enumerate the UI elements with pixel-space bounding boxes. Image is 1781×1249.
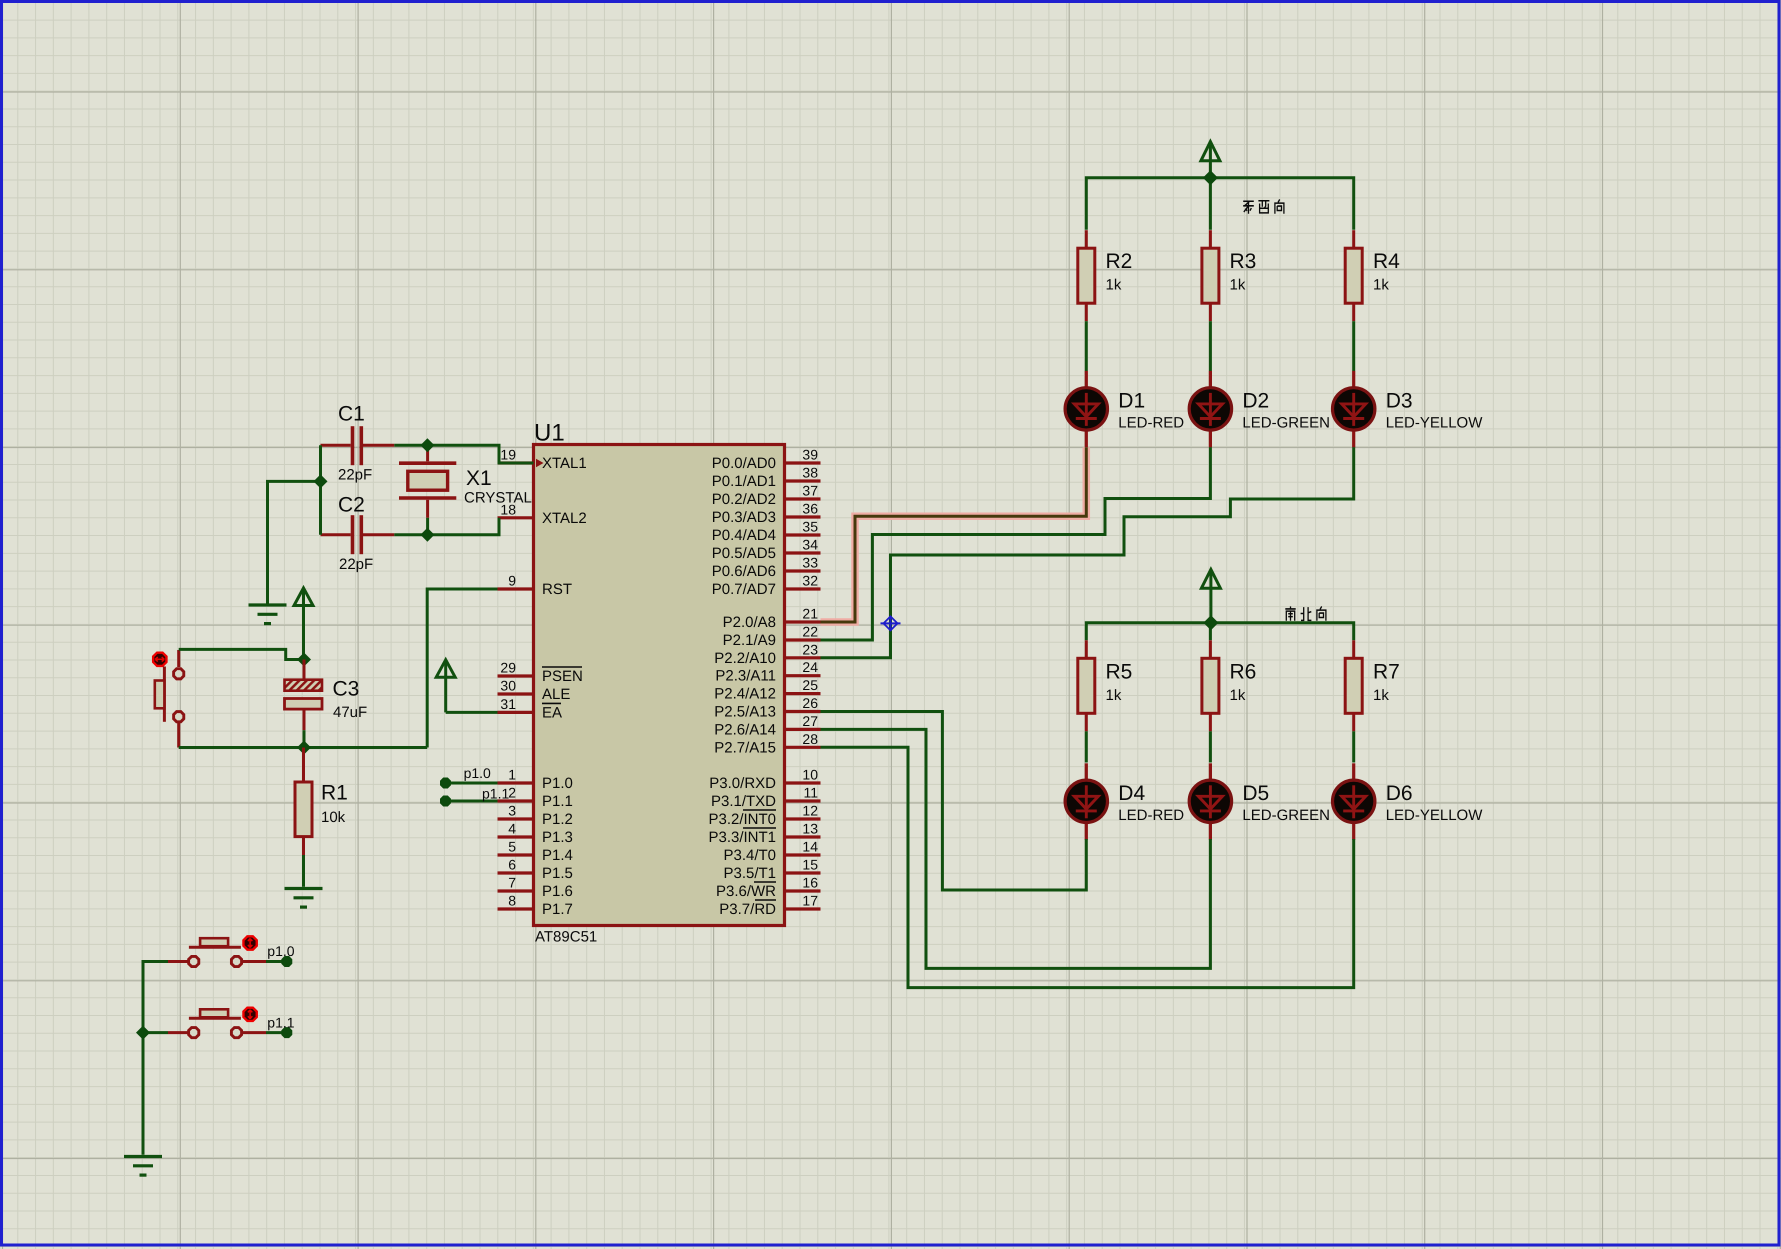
resistor R3 [1202, 230, 1219, 321]
wire P2.5 to D4 [821, 712, 1087, 891]
pin 9 RST [498, 573, 573, 599]
pin 3 P1.2 [498, 803, 573, 829]
svg-text:XTAL2: XTAL2 [542, 510, 587, 527]
svg-text:P2.4/A12: P2.4/A12 [714, 686, 776, 703]
pin 25 P2.4/A12 [714, 677, 820, 703]
node terminal p1.1 at chip [441, 796, 451, 806]
svg-text:11: 11 [803, 785, 818, 801]
resistor R4 [1345, 230, 1362, 321]
svg-text:12: 12 [802, 803, 818, 819]
pin 28 P2.7/A15 [714, 731, 820, 757]
wire R6 to D5 [1209, 731, 1212, 762]
node C1-left junction [314, 474, 328, 488]
svg-text:28: 28 [802, 731, 818, 747]
svg-text:P3.6/WR: P3.6/WR [716, 883, 776, 900]
diode D2 [1189, 371, 1231, 448]
pin 7 P1.6 [498, 875, 573, 901]
node XTAL net junction [420, 438, 434, 452]
capacitor C3 electrolytic [285, 660, 323, 731]
pin 26 P2.5/A13 [714, 695, 820, 721]
pin 1 P1.0 [498, 767, 573, 793]
svg-text:38: 38 [802, 465, 818, 481]
pin 24 P2.3/A11 [715, 659, 820, 685]
wire R7 to D6 [1352, 731, 1355, 762]
svg-text:27: 27 [802, 713, 818, 729]
pin 17 P3.7/RD [719, 893, 820, 919]
pin 34 P0.5/AD5 [712, 537, 821, 563]
pin 30 ALE [498, 678, 571, 704]
svg-text:P2.7/A15: P2.7/A15 [714, 739, 776, 756]
resistor R6 [1202, 640, 1219, 731]
push button RESET [153, 650, 184, 748]
svg-text:34: 34 [802, 537, 818, 553]
resistor R2 [1078, 230, 1095, 321]
pin 32 P0.7/AD7 [712, 573, 821, 599]
svg-text:p1.1: p1.1 [482, 786, 509, 802]
diode D6 [1333, 763, 1375, 840]
svg-text:P2.5/A13: P2.5/A13 [714, 704, 776, 721]
pin 16 P3.6/WR [716, 875, 821, 901]
wire button bottom to bottom rail [179, 746, 428, 749]
diode D3 [1333, 371, 1375, 448]
svg-text:35: 35 [802, 519, 818, 535]
pin 21 P2.0/A8 [723, 606, 821, 632]
svg-text:2: 2 [508, 785, 516, 801]
pin 2 P1.1 [498, 785, 573, 811]
power symbol lower LED bank [1201, 569, 1220, 622]
pin 14 P3.4/T0 [723, 839, 820, 865]
pin 15 P3.5/T1 [723, 857, 820, 883]
resistor R7 [1345, 640, 1362, 731]
svg-text:P1.5: P1.5 [542, 865, 573, 882]
svg-text:R1: R1 [321, 782, 348, 805]
wire button p1.0 left to ground rail [143, 962, 168, 1155]
svg-text:C1: C1 [338, 403, 365, 426]
svg-text:14: 14 [802, 839, 818, 855]
svg-text:LED-GREEN: LED-GREEN [1242, 807, 1330, 824]
wire RST net vertical [427, 589, 497, 748]
wire R4 to D3 [1352, 321, 1355, 371]
pin 29 PSEN [498, 660, 583, 686]
capacitor C2 [321, 515, 395, 554]
pin 13 P3.3/INT1 [708, 821, 820, 847]
node lower bus junction [1203, 615, 1218, 630]
svg-text:R5: R5 [1106, 660, 1133, 683]
diode D4 [1065, 763, 1107, 840]
svg-text:P0.1/AD1: P0.1/AD1 [712, 473, 776, 490]
svg-text:P2.2/A10: P2.2/A10 [714, 650, 776, 667]
svg-text:D1: D1 [1118, 389, 1145, 412]
pin 35 P0.4/AD4 [712, 519, 821, 545]
svg-text:X1: X1 [466, 467, 492, 490]
svg-text:10k: 10k [321, 809, 346, 826]
svg-text:1: 1 [508, 767, 516, 783]
node terminal p1.0 [282, 957, 292, 967]
wire R3 to D2 [1209, 321, 1212, 371]
svg-text:24: 24 [802, 659, 818, 675]
svg-text:C3: C3 [333, 678, 360, 701]
svg-text:R4: R4 [1373, 250, 1400, 273]
svg-text:D3: D3 [1386, 389, 1413, 412]
svg-text:6: 6 [508, 857, 516, 873]
pin 39 P0.0/AD0 [712, 447, 821, 473]
svg-text:33: 33 [802, 555, 818, 571]
svg-text:P1.3: P1.3 [542, 829, 573, 846]
push button p1.0 [168, 936, 266, 966]
svg-text:CRYSTAL: CRYSTAL [464, 490, 532, 507]
node terminal p1.1 [282, 1028, 292, 1038]
node C3 bottom junction [297, 741, 311, 755]
wire R2 to D1 [1085, 321, 1088, 371]
svg-text:22: 22 [802, 624, 818, 640]
svg-text:P3.1/TXD: P3.1/TXD [711, 793, 776, 810]
svg-text:1k: 1k [1106, 687, 1122, 704]
svg-text:39: 39 [802, 447, 818, 463]
push button p1.1 [168, 1008, 266, 1038]
svg-text:15: 15 [802, 857, 818, 873]
svg-text:R2: R2 [1106, 250, 1133, 273]
svg-text:LED-GREEN: LED-GREEN [1242, 414, 1330, 431]
origin cursor marker [881, 616, 901, 631]
wire R5 to D4 [1085, 731, 1088, 762]
svg-text:P1.7: P1.7 [542, 901, 573, 918]
svg-text:7: 7 [508, 875, 516, 891]
svg-text:P3.0/RXD: P3.0/RXD [709, 775, 776, 792]
power symbol (EA pin) [436, 660, 455, 713]
svg-text:P3.4/T0: P3.4/T0 [723, 847, 776, 864]
svg-text:R3: R3 [1230, 250, 1257, 273]
wire C2 to XTAL2 [394, 518, 499, 535]
svg-text:p1.0: p1.0 [464, 765, 491, 781]
svg-text:9: 9 [508, 573, 516, 589]
svg-text:p1.0: p1.0 [267, 943, 294, 959]
wire C1-C2 left vertical [319, 445, 322, 534]
wire P2.1 to D2 [821, 447, 1211, 640]
pin 38 P0.1/AD1 [712, 465, 821, 491]
pin 19 XTAL1 [498, 447, 587, 473]
pin 33 P0.6/AD6 [712, 555, 821, 581]
svg-text:EA: EA [542, 704, 562, 721]
svg-text:LED-YELLOW: LED-YELLOW [1386, 414, 1484, 431]
svg-text:LED-RED: LED-RED [1118, 807, 1184, 824]
wire R1 to ground [302, 855, 305, 887]
pin 36 P0.3/AD3 [712, 501, 821, 527]
pin 12 P3.2/INT0 [708, 803, 820, 829]
svg-text:XTAL1: XTAL1 [542, 455, 587, 472]
node upper bus junction [1203, 170, 1218, 185]
pin 5 P1.4 [498, 839, 573, 865]
wire crystal bottom to C2 net [426, 518, 429, 535]
svg-text:1k: 1k [1106, 277, 1122, 294]
svg-text:R7: R7 [1373, 660, 1400, 683]
svg-text:29: 29 [500, 660, 516, 676]
svg-text:30: 30 [500, 678, 516, 694]
pin 11 P3.1/TXD [711, 785, 821, 811]
svg-text:P0.4/AD4: P0.4/AD4 [712, 527, 776, 544]
resistor R1 [295, 748, 312, 856]
wire P2.7 to D6 [821, 747, 1354, 987]
svg-text:P2.3/A11: P2.3/A11 [715, 668, 776, 685]
svg-text:P2.6/A14: P2.6/A14 [714, 721, 776, 738]
svg-text:P1.4: P1.4 [542, 847, 573, 864]
svg-text:P3.7/RD: P3.7/RD [719, 901, 776, 918]
resistor R5 [1078, 640, 1095, 731]
svg-text:ALE: ALE [542, 686, 570, 703]
svg-text:25: 25 [802, 677, 818, 693]
svg-text:P3.3/INT1: P3.3/INT1 [708, 829, 776, 846]
svg-text:AT89C51: AT89C51 [535, 929, 597, 946]
wire bus drop to R3 [1209, 178, 1212, 230]
ground for C1 C2 [249, 605, 287, 624]
svg-text:17: 17 [802, 893, 818, 909]
svg-text:D4: D4 [1118, 782, 1145, 805]
svg-text:23: 23 [802, 641, 818, 657]
pin 37 P0.2/AD2 [712, 483, 821, 509]
pin 8 P1.7 [498, 893, 573, 919]
svg-text:R6: R6 [1230, 660, 1257, 683]
wire terminal to pin 1 [450, 782, 498, 785]
node XTAL2 net junction [420, 528, 434, 542]
svg-text:19: 19 [500, 447, 516, 463]
svg-text:16: 16 [802, 875, 818, 891]
svg-text:P0.6/AD6: P0.6/AD6 [712, 563, 776, 580]
svg-text:1k: 1k [1230, 687, 1246, 704]
pin 27 P2.6/A14 [714, 713, 820, 739]
wire bus drop to R6 [1209, 623, 1212, 640]
wire C1 to XTAL1 [394, 445, 533, 463]
wire C3 bottom to bottom rail [303, 730, 306, 747]
svg-text:PSEN: PSEN [542, 668, 583, 685]
ground for buttons [124, 1157, 162, 1176]
node label North-South (nan bei xiang) [1285, 606, 1326, 620]
svg-text:D2: D2 [1242, 389, 1269, 412]
pin 10 P3.0/RXD [709, 767, 820, 793]
pin 22 P2.1/A9 [723, 624, 821, 650]
svg-text:5: 5 [508, 839, 516, 855]
svg-text:37: 37 [802, 483, 818, 499]
svg-text:10: 10 [802, 767, 818, 783]
svg-text:47uF: 47uF [333, 704, 367, 721]
wire P2.2 to D3 [821, 447, 1354, 658]
svg-text:P2.0/A8: P2.0/A8 [723, 614, 776, 631]
wire terminal to pin 2 [450, 800, 498, 803]
ground for R1 [285, 889, 323, 908]
diode D1 [1065, 371, 1107, 448]
svg-text:P0.0/AD0: P0.0/AD0 [712, 455, 776, 472]
wire P2.0 to D1 (highlighted net) [821, 447, 1087, 622]
diode D5 [1189, 763, 1231, 840]
svg-text:4: 4 [508, 821, 516, 837]
svg-text:26: 26 [802, 695, 818, 711]
capacitor C1 [321, 426, 395, 465]
svg-text:8: 8 [508, 893, 516, 909]
svg-text:31: 31 [500, 696, 516, 712]
wire upper power bus [1086, 178, 1353, 230]
svg-text:C2: C2 [338, 494, 365, 517]
svg-text:21: 21 [802, 606, 818, 622]
svg-text:22pF: 22pF [338, 467, 372, 484]
crystal X1 [399, 447, 456, 518]
svg-text:D6: D6 [1386, 782, 1413, 805]
pin 23 P2.2/A10 [714, 641, 820, 667]
svg-text:36: 36 [802, 501, 818, 517]
svg-text:P1.0: P1.0 [542, 775, 573, 792]
svg-text:1k: 1k [1230, 277, 1246, 294]
svg-text:P1.2: P1.2 [542, 811, 573, 828]
svg-text:P0.3/AD3: P0.3/AD3 [712, 509, 776, 526]
svg-text:P3.5/T1: P3.5/T1 [723, 865, 776, 882]
wire lower power bus [1086, 623, 1353, 640]
svg-text:P1.6: P1.6 [542, 883, 573, 900]
svg-text:LED-RED: LED-RED [1118, 414, 1184, 431]
wire button top to C3 top [179, 649, 304, 659]
power symbol upper LED bank [1201, 142, 1220, 178]
pin 18 XTAL2 [498, 501, 587, 527]
node buttons ground junction [136, 1026, 150, 1040]
wire p1.1 to terminal [266, 1031, 287, 1034]
svg-text:13: 13 [802, 821, 818, 837]
svg-text:3: 3 [508, 803, 516, 819]
node terminal p1.0 at chip [441, 778, 451, 788]
svg-text:P1.1: P1.1 [542, 793, 573, 810]
pin 4 P1.3 [498, 821, 573, 847]
svg-text:1k: 1k [1373, 687, 1389, 704]
svg-text:LED-YELLOW: LED-YELLOW [1386, 807, 1484, 824]
power symbol (reset net) [294, 588, 313, 660]
svg-text:P0.5/AD5: P0.5/AD5 [712, 545, 776, 562]
wire button p1.1 left [143, 1031, 168, 1034]
svg-text:P3.2/INT0: P3.2/INT0 [708, 811, 776, 828]
pin 6 P1.5 [498, 857, 573, 883]
wire branch to ground [268, 481, 321, 603]
svg-text:32: 32 [802, 573, 818, 589]
svg-text:22pF: 22pF [339, 556, 373, 573]
svg-text:P0.7/AD7: P0.7/AD7 [712, 581, 776, 598]
pin 31 EA [498, 696, 563, 722]
wire P2.6 to D5 [821, 729, 1211, 968]
wire p1.0 to terminal [266, 960, 287, 963]
svg-text:P0.2/AD2: P0.2/AD2 [712, 491, 776, 508]
op-amp U1 body (AT89C51 MCU) [534, 445, 785, 926]
svg-text:p1.1: p1.1 [267, 1015, 294, 1031]
node C3 top junction [297, 653, 311, 667]
svg-text:RST: RST [542, 581, 572, 598]
svg-text:D5: D5 [1242, 782, 1269, 805]
node label East-West (dong xi xiang) [1243, 199, 1284, 213]
svg-text:1k: 1k [1373, 277, 1389, 294]
svg-text:P2.1/A9: P2.1/A9 [723, 632, 776, 649]
wire EA power to pin 31 [446, 711, 498, 714]
svg-text:U1: U1 [534, 420, 565, 447]
